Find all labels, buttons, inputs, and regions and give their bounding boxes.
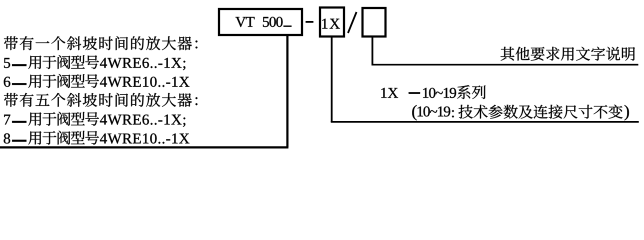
wire VT500 leader horizontal underline [0,146,288,148]
wire blank-box leader vertical [371,36,373,65]
label 其他要求用文字说明 [501,47,635,61]
label line6 8—用于阀型号4WRE10..-1X [4,131,190,145]
wire 1X leader vertical [331,36,333,122]
separator slash [348,12,357,33]
label 1X [322,19,340,29]
wire 1X leader horizontal underline [331,121,639,123]
separator dash [306,21,314,23]
wire blank-box leader horizontal underline [372,64,639,66]
label 1X—10~19系列 [381,85,485,99]
label (10~19:技术参数及连接尺寸不变) [412,105,629,121]
box field blank [363,8,386,37]
label line2 5—用于阀型号4WRE6..-1X; [4,55,185,70]
label line4 带有五个斜坡时间的放大器： [4,93,197,107]
label VT 500 [235,17,282,27]
wire VT500 leader vertical [286,35,288,147]
label line3 6—用于阀型号4WRE10..-1X [4,74,190,88]
label line1 带有一个斜坡时间的放大器： [4,36,197,50]
box field VT 500_ [219,9,302,35]
label line5 7—用于阀型号4WRE6..-1X; [4,112,185,127]
box field 1X [320,8,344,37]
underscore placeholder [283,26,291,27]
